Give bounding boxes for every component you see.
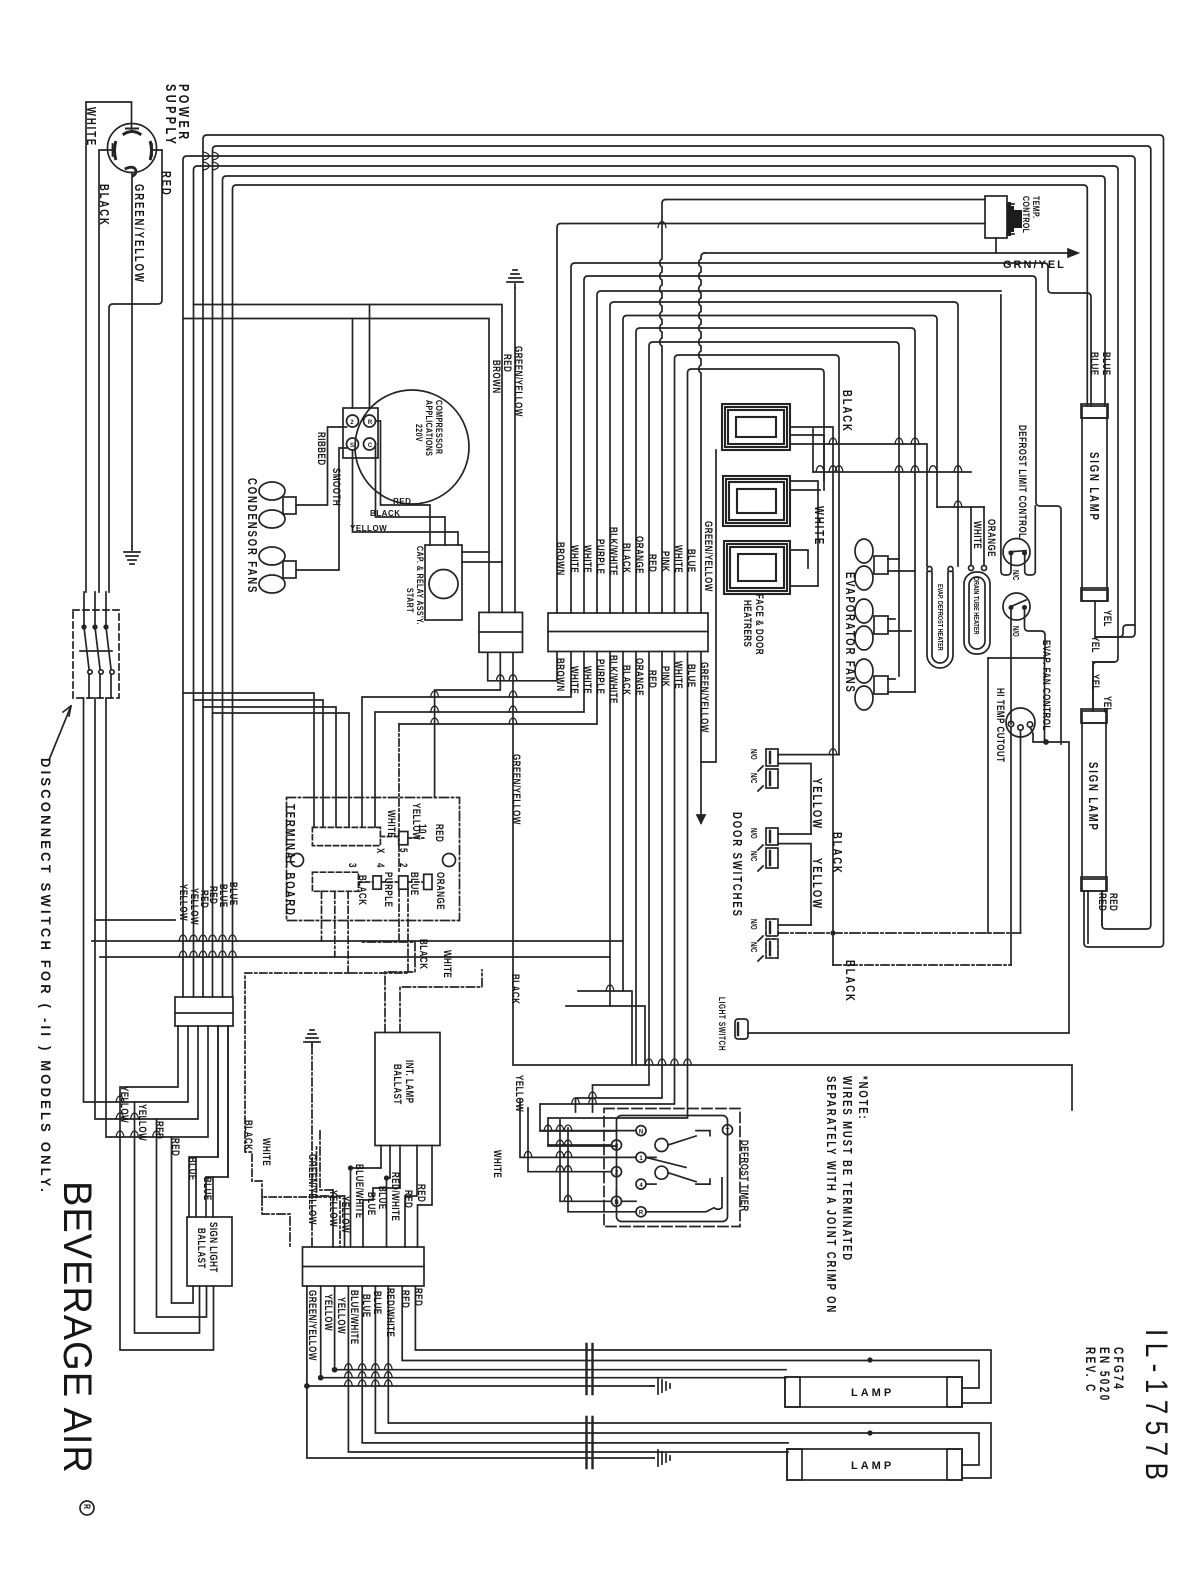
- svg-text:WHITE: WHITE: [581, 545, 594, 573]
- svg-text:BLUE: BLUE: [201, 1177, 214, 1201]
- svg-text:YEL: YEL: [1101, 610, 1114, 627]
- svg-text:SUPPLY: SUPPLY: [163, 84, 180, 147]
- svg-text:TEMP.: TEMP.: [1031, 196, 1042, 218]
- svg-text:RED: RED: [159, 171, 173, 197]
- svg-text:RIBBED: RIBBED: [315, 432, 328, 466]
- svg-text:EVAP. FAN CONTROL: EVAP. FAN CONTROL: [1040, 640, 1053, 731]
- svg-text:DOOR SWITCHES: DOOR SWITCHES: [730, 812, 744, 918]
- svg-text:WHITE: WHITE: [672, 661, 685, 689]
- svg-text:YELLOW: YELLOW: [136, 1104, 149, 1141]
- svg-text:WHITE: WHITE: [260, 1138, 273, 1166]
- svg-text:COMPRESSOR: COMPRESSOR: [434, 400, 445, 454]
- svg-text:INT. LAMP: INT. LAMP: [403, 1060, 416, 1104]
- svg-text:PINK: PINK: [659, 551, 672, 572]
- svg-text:GREEN/YELLOW: GREEN/YELLOW: [306, 1290, 319, 1361]
- svg-text:HI TEMP CUTOUT: HI TEMP CUTOUT: [994, 688, 1007, 763]
- svg-text:R: R: [368, 420, 373, 426]
- svg-text:N/O: N/O: [1011, 626, 1020, 637]
- svg-text:REV. C: REV. C: [1083, 1347, 1099, 1394]
- svg-text:LAMP: LAMP: [851, 1387, 894, 1399]
- svg-text:YEL: YEL: [1089, 636, 1102, 653]
- svg-text:GREEN/YELLOW: GREEN/YELLOW: [306, 1154, 319, 1225]
- svg-text:10: 10: [416, 824, 429, 834]
- svg-text:PURPLE: PURPLE: [382, 872, 395, 907]
- svg-text:YELLOW: YELLOW: [327, 1190, 340, 1227]
- svg-text:CONTROL: CONTROL: [1021, 196, 1032, 233]
- svg-text:DEFROST TIMER: DEFROST TIMER: [738, 1140, 751, 1212]
- svg-text:RED: RED: [412, 1288, 425, 1306]
- svg-text:CAP. & RELAY ASS'Y.: CAP. & RELAY ASS'Y.: [415, 546, 426, 625]
- svg-text:N/C: N/C: [749, 773, 758, 783]
- svg-text:SIGN LIGHT: SIGN LIGHT: [207, 1222, 220, 1273]
- svg-text:BLACK: BLACK: [843, 960, 857, 1003]
- svg-text:BLACK: BLACK: [97, 184, 111, 227]
- svg-text:N/C: N/C: [1011, 570, 1020, 580]
- svg-text:GREEN/YELLOW: GREEN/YELLOW: [512, 346, 525, 417]
- svg-text:BLACK: BLACK: [620, 543, 633, 573]
- svg-text:BLUE: BLUE: [371, 1291, 384, 1315]
- svg-text:RED/WHITE: RED/WHITE: [389, 1172, 402, 1221]
- svg-text:WHITE: WHITE: [84, 107, 98, 147]
- svg-text:BLACK: BLACK: [242, 1120, 255, 1150]
- svg-text:C: C: [368, 443, 373, 449]
- svg-text:BLUE: BLUE: [376, 1186, 389, 1210]
- svg-text:PINK: PINK: [659, 666, 672, 687]
- svg-text:EVAPORATOR FANS: EVAPORATOR FANS: [843, 572, 857, 694]
- svg-text:BLUE: BLUE: [186, 1157, 199, 1181]
- svg-text:RED: RED: [393, 497, 411, 506]
- svg-text:BLUE: BLUE: [685, 549, 698, 573]
- svg-text:R: R: [639, 1211, 644, 1217]
- svg-text:SIGN LAMP: SIGN LAMP: [1087, 452, 1101, 522]
- svg-text:YELLOW: YELLOW: [410, 803, 423, 840]
- svg-text:FACE & DOOR: FACE & DOOR: [753, 594, 766, 655]
- svg-text:YELLOW: YELLOW: [335, 1297, 348, 1334]
- svg-text:BLACK: BLACK: [830, 832, 844, 875]
- svg-text:PURPLE: PURPLE: [594, 659, 607, 694]
- svg-text:BROWN: BROWN: [554, 658, 567, 692]
- svg-text:EN 5020: EN 5020: [1097, 1347, 1113, 1403]
- svg-text:YELLOW: YELLOW: [513, 1075, 526, 1112]
- svg-text:LAMP: LAMP: [851, 1460, 894, 1472]
- svg-text:HEATRERS: HEATRERS: [741, 600, 754, 647]
- svg-text:3: 3: [346, 863, 359, 868]
- svg-text:BLACK: BLACK: [509, 974, 522, 1004]
- svg-text:BLACK: BLACK: [417, 939, 430, 969]
- svg-text:BLACK: BLACK: [356, 875, 369, 905]
- svg-text:WHITE: WHITE: [441, 950, 454, 978]
- svg-text:WHITE: WHITE: [491, 1150, 504, 1178]
- svg-text:ORANGE: ORANGE: [633, 658, 646, 696]
- svg-text:BLUE: BLUE: [685, 664, 698, 688]
- svg-text:YEL: YEL: [1101, 696, 1114, 713]
- svg-text:YELLOW: YELLOW: [810, 778, 824, 830]
- svg-text:GREEN/YELLOW: GREEN/YELLOW: [132, 184, 146, 284]
- svg-text:ORANGE: ORANGE: [985, 519, 998, 557]
- svg-text:WHITE: WHITE: [971, 521, 984, 549]
- svg-text:BALLAST: BALLAST: [195, 1228, 208, 1269]
- svg-text:4: 4: [374, 863, 387, 868]
- svg-text:BROWN: BROWN: [554, 542, 567, 576]
- svg-text:N/C: N/C: [749, 851, 758, 861]
- svg-text:RED: RED: [402, 1190, 415, 1208]
- svg-text:220V: 220V: [414, 424, 425, 442]
- svg-text:BALLAST: BALLAST: [391, 1064, 404, 1105]
- svg-text:ORANGE: ORANGE: [633, 536, 646, 574]
- svg-text:RED: RED: [433, 824, 446, 842]
- svg-text:WHITE: WHITE: [672, 545, 685, 573]
- svg-text:DRAIN TUBE HEATER: DRAIN TUBE HEATER: [972, 577, 980, 635]
- svg-text:BLUE: BLUE: [408, 872, 421, 896]
- svg-text:BEVERAGE AIR: BEVERAGE AIR: [55, 1181, 99, 1474]
- svg-text:BLUE: BLUE: [227, 882, 240, 906]
- svg-text:GREEN/YELLOW: GREEN/YELLOW: [698, 662, 711, 733]
- svg-text:N/O: N/O: [749, 919, 758, 930]
- svg-text:RED: RED: [1107, 893, 1120, 911]
- svg-text:RED: RED: [646, 670, 659, 688]
- svg-text:YEL: YEL: [1089, 674, 1102, 691]
- svg-text:ORANGE: ORANGE: [434, 872, 447, 910]
- svg-text:CONDENSOR FANS: CONDENSOR FANS: [245, 478, 259, 594]
- svg-text:IL-1757B: IL-1757B: [1138, 1329, 1173, 1486]
- svg-text:SEPARATELY WITH A JOINT CRIMP: SEPARATELY WITH A JOINT CRIMP ON: [824, 1076, 838, 1314]
- svg-text:X: X: [374, 848, 387, 854]
- svg-text:GREEN/YELLOW: GREEN/YELLOW: [702, 521, 715, 592]
- svg-text:*NOTE:: *NOTE:: [856, 1076, 870, 1121]
- svg-text:5: 5: [397, 848, 410, 853]
- svg-text:WHITE: WHITE: [581, 666, 594, 694]
- svg-text:YELLOW: YELLOW: [810, 858, 824, 910]
- svg-text:WIRES MUST BE TERMINATED: WIRES MUST BE TERMINATED: [840, 1076, 854, 1262]
- svg-text:START: START: [405, 588, 416, 613]
- svg-text:SMOOTH: SMOOTH: [330, 468, 343, 506]
- svg-text:BLK/WHITE: BLK/WHITE: [607, 655, 620, 704]
- svg-text:N/O: N/O: [749, 749, 758, 760]
- svg-text:GRN/YEL: GRN/YEL: [1003, 259, 1066, 271]
- svg-text:SIGN LAMP: SIGN LAMP: [1086, 762, 1100, 832]
- svg-text:WHITE: WHITE: [812, 506, 826, 546]
- svg-text:BLK/WHITE: BLK/WHITE: [607, 527, 620, 576]
- svg-text:RED/WHITE: RED/WHITE: [384, 1288, 397, 1337]
- svg-text:N: N: [639, 1130, 643, 1136]
- svg-text:WHITE: WHITE: [568, 545, 581, 573]
- svg-text:N/O: N/O: [749, 828, 758, 839]
- svg-text:LIGHT SWITCH: LIGHT SWITCH: [717, 997, 727, 1051]
- svg-text:N/C: N/C: [749, 942, 758, 952]
- svg-text:RED: RED: [415, 1184, 428, 1202]
- svg-text:EVAP. DEFROST HEATER: EVAP. DEFROST HEATER: [936, 584, 944, 651]
- svg-text:APPLICATIONS: APPLICATIONS: [424, 400, 435, 456]
- svg-text:T: T: [726, 1129, 730, 1135]
- svg-text:YELLOW: YELLOW: [339, 1196, 352, 1233]
- svg-text:YELLOW: YELLOW: [118, 1086, 131, 1123]
- svg-text:2: 2: [397, 863, 410, 868]
- svg-text:DEFROST LIMIT CONTROL: DEFROST LIMIT CONTROL: [1016, 425, 1029, 539]
- svg-text:RED: RED: [646, 554, 659, 572]
- svg-text:S: S: [350, 443, 354, 449]
- svg-text:RED: RED: [399, 1290, 412, 1308]
- svg-text:GREEN/YELLOW: GREEN/YELLOW: [510, 754, 523, 825]
- svg-text:TERMINAL BOARD: TERMINAL BOARD: [283, 804, 297, 917]
- svg-text:BLUE: BLUE: [1100, 352, 1113, 376]
- svg-text:RED: RED: [153, 1121, 166, 1139]
- svg-text:N: N: [614, 1200, 618, 1206]
- svg-text:BLUE: BLUE: [1088, 352, 1101, 376]
- svg-text:YELLOW: YELLOW: [350, 524, 387, 533]
- svg-text:CFG74: CFG74: [1111, 1347, 1127, 1391]
- svg-text:BLUE/WHITE: BLUE/WHITE: [353, 1164, 366, 1219]
- svg-text:BLACK: BLACK: [370, 509, 401, 518]
- svg-text:WHITE: WHITE: [385, 810, 398, 838]
- svg-text:BLUE/WHITE: BLUE/WHITE: [348, 1290, 361, 1345]
- svg-text:YELLOW: YELLOW: [322, 1294, 335, 1331]
- svg-text:PURPLE: PURPLE: [594, 539, 607, 574]
- svg-text:DISCONNECT SWITCH FOR ( -II ): DISCONNECT SWITCH FOR ( -II ) MODELS ONL…: [38, 758, 53, 1195]
- svg-text:RED: RED: [169, 1138, 182, 1156]
- svg-text:BLACK: BLACK: [620, 665, 633, 695]
- svg-text:R: R: [82, 1504, 93, 1509]
- svg-text:BLACK: BLACK: [840, 390, 854, 433]
- svg-text:WHITE: WHITE: [568, 666, 581, 694]
